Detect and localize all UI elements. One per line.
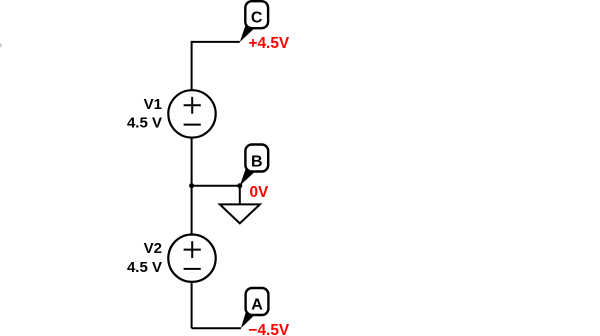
node B flag: [240, 145, 268, 186]
svg-text:V1: V1: [144, 96, 162, 113]
svg-text:0V: 0V: [250, 184, 270, 201]
svg-text:−4.5V: −4.5V: [249, 322, 290, 336]
svg-text:B: B: [251, 154, 263, 171]
junction dot on main wire: [189, 183, 194, 188]
ground: [220, 204, 260, 223]
wire middle horizontal (junction to node B): [192, 185, 240, 187]
svg-text:C: C: [251, 10, 263, 27]
wire top horizontal (node C to corner): [192, 41, 240, 43]
voltage source V1: [168, 90, 215, 137]
wire V1 minus terminal to V2 plus terminal: [191, 137, 193, 236]
svg-text:4.5 V: 4.5 V: [127, 115, 162, 132]
stray faint mark at left edge: [0, 44, 2, 48]
svg-text:+4.5V: +4.5V: [249, 35, 290, 52]
svg-text:4.5 V: 4.5 V: [127, 259, 162, 276]
voltage source V2: [168, 235, 215, 282]
svg-text:V2: V2: [144, 240, 162, 257]
wire ground stub: [239, 185, 241, 205]
wire top vertical (corner to V1 plus terminal): [191, 41, 193, 91]
svg-text:A: A: [251, 297, 263, 314]
wire bottom horizontal (corner to node A): [192, 327, 241, 329]
junction dot at node B: [237, 183, 242, 188]
node C flag: [240, 1, 268, 42]
wire V2 minus terminal to bottom corner: [191, 281, 193, 328]
node A flag: [241, 288, 269, 328]
